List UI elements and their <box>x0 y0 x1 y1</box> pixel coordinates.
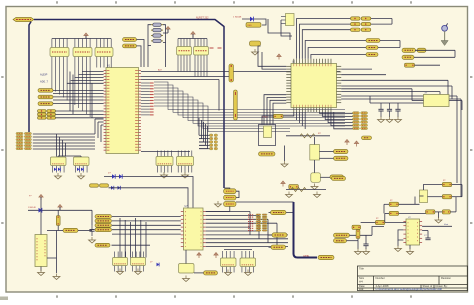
wires above U10 U11 <box>224 249 252 251</box>
cap C7 right of U15 <box>427 231 429 239</box>
resistor pack RP2 <box>73 39 92 67</box>
vertical part VR1 <box>229 64 233 82</box>
zigzag resistor row mid <box>286 135 330 137</box>
diode D5 near U9 <box>157 263 160 267</box>
wire QFP bottom to left transistor <box>262 112 294 124</box>
part X3 below Q2 <box>311 173 321 183</box>
riser wires J1 area up to U1 <box>94 119 96 134</box>
red pin texts right of RP5 <box>210 47 222 49</box>
resistor pack RP1 <box>50 39 69 67</box>
svg-text:R?: R? <box>376 218 378 220</box>
transistor Q1 body <box>264 126 272 138</box>
main IC U1 body <box>106 68 139 154</box>
wires RP3 pins to U1 top <box>96 67 98 68</box>
zigzag resistor row above IC3 <box>286 189 326 191</box>
IC U7 body <box>184 208 204 250</box>
ground below U12 <box>183 276 190 282</box>
thick navy bus outline top-left <box>29 20 224 189</box>
wires U12 <box>194 272 204 274</box>
svg-text:ALE: ALE <box>158 69 162 72</box>
svg-text:NLRST 232: NLRST 232 <box>196 17 209 20</box>
wires QFP left pins up <box>258 46 286 66</box>
title block <box>358 266 468 291</box>
small IC U11 bottom center <box>240 251 256 273</box>
resistor R10 <box>289 185 299 189</box>
resistor R16 <box>426 210 435 214</box>
svg-text:Title: Title <box>359 267 364 271</box>
wire stacked parts to bus top <box>236 201 294 203</box>
stacked parts above U7 <box>224 189 236 194</box>
wires oscillator <box>412 100 424 102</box>
svg-text:1 N4148: 1 N4148 <box>28 207 36 209</box>
svg-text:Number: Number <box>376 276 385 280</box>
wires U1 left to 2x3 label grid <box>56 110 104 112</box>
ground below U11 <box>245 270 252 276</box>
net labels right of Q2 <box>334 149 349 153</box>
ground below regulator <box>38 270 45 276</box>
net labels column left of U1 <box>38 89 53 93</box>
extra mesh verticals left of U1 <box>69 72 71 112</box>
ground U15 bottom <box>409 245 411 249</box>
net label pair right <box>402 48 416 52</box>
title block labels <box>359 267 452 292</box>
net label XTAL2 <box>123 44 137 48</box>
ground below U10 <box>225 270 232 276</box>
small IC U9 bottom <box>131 252 146 272</box>
wires QFP left pins down <box>264 95 286 125</box>
net label right of grid C <box>271 245 286 249</box>
U1 left pins <box>104 71 110 151</box>
extra band wires <box>141 76 231 78</box>
wires around crystal stack <box>148 25 151 46</box>
wire band under U1 to U5 U6 <box>141 151 190 153</box>
wire loop analog <box>78 229 92 231</box>
svg-text:ALE/P: ALE/P <box>40 73 48 77</box>
power VCC above RP2 <box>84 33 88 39</box>
net label DATA <box>318 255 334 259</box>
QFP IC U2 body <box>291 64 337 108</box>
wires from J1 to riser bundle <box>33 133 95 135</box>
small IC U10 bottom center <box>221 251 237 273</box>
net label right of grid A <box>271 210 287 214</box>
ground below U5 <box>161 172 168 178</box>
small IC U4 below-left <box>74 157 90 173</box>
net label right of U12 <box>204 271 218 275</box>
corner mark <box>0 297 8 301</box>
wires from XTAL labels <box>137 40 145 68</box>
wires from DF labels <box>380 40 400 42</box>
svg-text:DATA1: DATA1 <box>303 255 310 258</box>
resistor pack RP3 <box>95 39 113 67</box>
resistor R9 and text <box>274 114 284 118</box>
ground Q3 <box>357 241 359 249</box>
power below grid <box>354 141 358 147</box>
SIP pin strip right of U1 <box>141 83 154 115</box>
resistor R15 <box>389 211 398 215</box>
blue net name texts <box>40 73 48 84</box>
ground left under zigzag <box>286 192 293 198</box>
op-amp wires network <box>424 185 443 191</box>
svg-text:1 F6.3: 1 F6.3 <box>262 117 269 119</box>
svg-text:Revision: Revision <box>441 276 452 280</box>
crystal stack Y1 <box>151 23 163 26</box>
red pin texts left of grid <box>248 215 254 231</box>
bus wires staircase right of U1 <box>154 82 345 110</box>
speaker circle LS1 <box>442 23 448 40</box>
net label DF1 <box>366 39 380 43</box>
resistor R17 <box>442 210 450 214</box>
svg-text:C:\Documents and Settings\Desi: C:\Documents and Settings\Design\MySchem… <box>376 287 443 291</box>
U2 inner pin marks <box>294 64 331 107</box>
diode D4 <box>28 209 60 211</box>
small IC U8 bottom <box>113 252 128 272</box>
wires U7 right fanout <box>206 211 250 213</box>
thick bus vertical DATA <box>294 202 318 258</box>
ground below U4 <box>78 173 85 179</box>
resistor pack RP4 <box>177 39 192 72</box>
connector CON2 vertical top <box>281 14 294 26</box>
resistor C6 right <box>405 63 415 67</box>
ground below R8 area <box>252 49 259 55</box>
resistor R11 vertical <box>56 216 60 226</box>
power arrow right of crystal stack <box>166 27 170 33</box>
net label cluster top-right rows <box>351 17 361 20</box>
wires X3 <box>320 176 330 178</box>
small part R8 <box>250 41 261 46</box>
ground below X3 <box>311 184 318 190</box>
svg-text:File:: File: <box>359 287 364 291</box>
feedback resistor R12 <box>442 182 451 186</box>
diode D3 top <box>242 18 262 20</box>
wire loop around Q1 <box>259 125 276 146</box>
op-amp IC U15 <box>406 219 420 245</box>
pad grid right of U1 <box>210 134 218 150</box>
wire to ground right <box>56 231 58 274</box>
ground below U3 <box>55 173 62 179</box>
power P3 <box>58 205 62 211</box>
wire D3 to CON2 <box>262 19 266 25</box>
U1 right pins <box>135 71 141 151</box>
ground left of stacked parts <box>215 201 222 207</box>
U7 left pins <box>181 212 184 247</box>
cap C5 <box>365 235 367 244</box>
part U12 small box <box>179 264 195 274</box>
connector J1 left <box>16 133 31 150</box>
net label grid 2x3 left <box>38 110 47 113</box>
rail above caps <box>370 102 430 104</box>
regulator U13 vertical <box>35 235 47 267</box>
wires RP1 RP2 pins down to U1 area <box>51 67 53 89</box>
oscillator box X2 <box>424 95 450 107</box>
power near U12 <box>197 253 201 259</box>
svg-text:Drawn By:: Drawn By: <box>436 284 448 288</box>
capacitor C4 <box>89 225 94 236</box>
svg-text:D?: D? <box>150 262 152 264</box>
power near U10 <box>214 253 218 259</box>
wires from labels <box>269 212 271 214</box>
net label pair mid <box>90 184 99 187</box>
wires regulator <box>40 210 42 234</box>
wires stacked parts <box>224 187 230 190</box>
wires U1 left pins to labels <box>53 89 104 91</box>
feedback resistor R13 <box>442 195 451 199</box>
part box below D3 <box>246 23 261 28</box>
series diodes D1 D2 <box>104 176 130 178</box>
ground below U6 <box>182 172 189 178</box>
wires cluster to right <box>371 18 392 20</box>
power QFP top-left <box>277 54 281 60</box>
long rail to right edge <box>341 95 457 97</box>
net label port top <box>332 176 346 180</box>
svg-text:RES: RES <box>248 25 253 27</box>
svg-text:1 N4148: 1 N4148 <box>233 17 242 19</box>
top bus wire linking resistor packs <box>52 38 111 40</box>
wires QFP bottom fanout <box>320 112 353 113</box>
net label DF3 <box>366 53 378 57</box>
net labels column bottom-left <box>95 215 112 219</box>
wires right cluster <box>415 49 455 51</box>
resistor pack RP5 <box>194 39 209 77</box>
net label small below grid <box>362 136 372 140</box>
net label DF2 <box>366 46 378 50</box>
power VCC above RP5 <box>191 32 195 38</box>
vertical part VR2 <box>234 90 238 120</box>
ground right under zigzag <box>314 192 321 198</box>
resistor R18 <box>375 220 384 224</box>
small IC U5 below U1 <box>156 151 173 173</box>
small IC U6 below U1 <box>177 151 194 173</box>
ground below U9 <box>135 269 142 275</box>
port oval P1 top-left <box>13 17 34 21</box>
power arrow right of zigzag <box>345 140 349 146</box>
input transistor Q3 <box>357 229 359 241</box>
svg-text:A4: A4 <box>359 280 363 284</box>
wires QFP right to east components <box>341 68 372 70</box>
svg-text:R?: R? <box>443 180 445 182</box>
wire ALE long <box>141 71 340 73</box>
net label XTAL1 <box>123 38 137 42</box>
net label below Q1 <box>259 152 276 156</box>
net label right of grid B <box>272 233 287 237</box>
SOT23 Q2 <box>310 145 320 161</box>
U7 right pins <box>203 212 206 247</box>
svg-text:R?: R? <box>390 200 392 202</box>
ground below C4 <box>89 237 96 243</box>
power near R10 <box>281 181 285 187</box>
wire output right <box>422 225 452 227</box>
svg-text:AD0..7: AD0..7 <box>40 80 48 84</box>
net label right of X3 <box>330 175 344 179</box>
small IC U3 below-left <box>51 157 67 173</box>
wires Q2 <box>319 151 333 153</box>
vertical joins right of U7 <box>249 212 251 235</box>
U15 pins <box>403 222 422 243</box>
input port ovals <box>334 233 350 237</box>
pad grid right-mid <box>353 112 368 130</box>
power P2 <box>39 195 43 201</box>
wires input <box>350 234 373 236</box>
U2 pins four sides <box>286 59 341 112</box>
wires top-center to QFP <box>297 19 351 59</box>
pad grid 8 rows right <box>256 214 267 231</box>
op-amp stage U14 small <box>420 190 428 203</box>
resistor R14 <box>389 202 398 206</box>
resistor R19 <box>352 225 361 229</box>
ground below Q1 loop <box>281 161 288 167</box>
ground bottom analog <box>53 274 60 280</box>
wires into right pad grid <box>199 134 210 136</box>
wire U3 U4 tops <box>58 155 81 157</box>
ground U15 left <box>397 240 399 246</box>
net label right of regulator <box>63 228 78 232</box>
decoupling caps C1 C2 C3 <box>378 103 383 117</box>
grid wires left of U7 <box>112 216 181 218</box>
ground below U8 <box>117 269 124 275</box>
svg-text:Vout: Vout <box>444 223 448 226</box>
wire oval to bus <box>286 212 294 214</box>
ground arrow below LS1 <box>441 41 448 46</box>
net label single bottom <box>95 243 110 247</box>
diodes mid small <box>111 186 114 190</box>
diodes below U3 U4 <box>54 168 56 171</box>
